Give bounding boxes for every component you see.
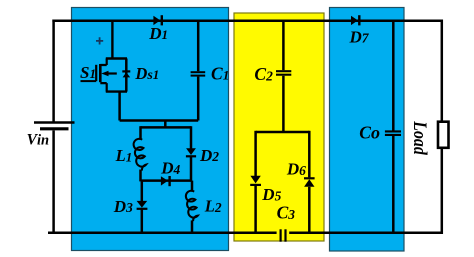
capacitor C3 (in bottom rail) [281,229,286,241]
capacitor C2 [276,21,291,132]
wire: L1 to D4 rail [139,170,142,182]
wire: L1 branch upper [139,126,142,139]
inductor L1 [134,139,147,171]
source stub [100,83,106,92]
wire: D4 rail [141,179,192,182]
svg-text:D1: D1 [148,24,168,43]
top rail of switch cell [106,57,127,59]
svg-text:Ds1: Ds1 [134,64,159,83]
diode D1 [153,16,160,25]
diode D5 [250,176,260,184]
cell box 3 (cyan) [330,8,405,252]
wire: load branch bottom [441,148,444,234]
wire: rail 2 [141,126,192,129]
svg-text:D2: D2 [199,146,219,165]
svg-text:L2: L2 [204,197,222,216]
wire: center stub down [164,121,167,128]
wire: left vertical below Vin [52,131,55,233]
svg-text:D5: D5 [261,185,281,204]
wire: D6 branch [308,131,311,178]
wire: bottom rail (right of C3) [289,231,443,234]
drain stub [100,59,106,66]
wire: top rail [52,19,443,22]
arrow into channel [105,72,117,74]
right rail with body diode [125,59,128,92]
svg-text:Load: Load [409,120,430,155]
drain lead [111,21,113,59]
svg-text:S1: S1 [80,63,96,82]
gate lead under S1 [81,80,97,82]
polarity + [96,37,103,44]
cell box 2 (yellow) [234,13,324,241]
svg-text:Co: Co [359,122,380,142]
body diode Ds1 [123,72,131,77]
wire: left vertical above Vin [52,20,55,122]
svg-text:D6: D6 [286,160,306,179]
capacitor C1 [191,21,206,121]
wire: D5 branch [254,131,257,176]
svg-text:L1: L1 [115,146,133,165]
cell box 1 (cyan) [72,8,229,251]
svg-text:D4: D4 [160,159,180,178]
capacitor Co [385,21,401,233]
diode D6 [304,179,314,187]
source lead down [118,92,121,121]
wire: mid rail in yellow cell [256,131,310,134]
battery Vin plates [34,123,75,129]
bottom rail of switch cell [106,90,127,92]
svg-text:D7: D7 [349,27,370,46]
wire: load branch top [441,20,444,122]
diode D7 [351,16,358,25]
gate bar [95,65,97,81]
diode D3 [137,201,148,208]
svg-text:Vin: Vin [27,132,49,149]
svg-text:D3: D3 [113,197,133,216]
wire: D3 branch [141,181,144,202]
transistor S1 (MOSFET) [81,21,128,121]
inductor L2 [186,191,198,221]
resistor Load [438,122,449,148]
wire: L2 to bottom rail [191,220,194,232]
wire: L2 branch upper [191,181,194,192]
wire: bottom rail (left of C3) [48,231,277,234]
diode D4 [161,176,168,185]
wire: D2 branch upper [190,126,193,149]
diode D2 [186,148,196,155]
wire: source rail (node a) [120,119,199,122]
channel bar [99,64,102,82]
